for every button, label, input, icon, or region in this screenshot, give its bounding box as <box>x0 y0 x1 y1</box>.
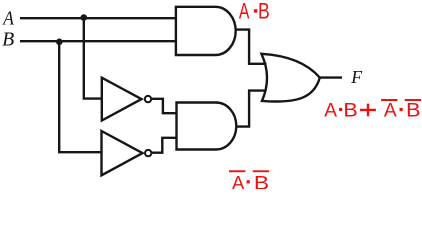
and-gate U4 bottom <box>177 103 237 150</box>
svg-text:A: A <box>1 8 13 29</box>
node junction on A <box>81 14 88 21</box>
svg-text:A: A <box>239 0 250 24</box>
wire A branch to NOT1 <box>84 18 103 98</box>
svg-text:B: B <box>254 172 269 189</box>
plus sign drawn <box>360 104 376 117</box>
svg-text:B: B <box>2 30 14 51</box>
inverter U2 triangle <box>102 78 142 121</box>
svg-text:A: A <box>232 172 245 189</box>
svg-text:B: B <box>343 100 357 122</box>
svg-text:A: A <box>324 100 337 122</box>
or-gate U5 <box>261 54 319 102</box>
inverter U2 bubble <box>145 96 151 102</box>
and-gate U1 top <box>176 7 236 55</box>
wire AND2 output to OR lower input <box>236 91 266 127</box>
inverter U3 bubble <box>145 150 151 156</box>
svg-text:B: B <box>258 0 270 24</box>
red label A·B for AND1 output <box>239 0 270 24</box>
wire NOT2 output to AND2 lower input <box>152 138 177 153</box>
svg-text:F: F <box>350 67 363 87</box>
inverter U3 triangle <box>102 131 143 175</box>
wire AND1 output to OR upper input <box>236 30 267 64</box>
wire OR output to F <box>320 76 342 78</box>
wire A horizontal <box>20 17 177 19</box>
wire B horizontal <box>20 40 177 42</box>
wire B branch to NOT2 <box>59 41 102 152</box>
svg-text:B: B <box>406 100 421 122</box>
node junction on B <box>56 39 63 46</box>
wire NOT1 output to AND2 upper input <box>151 99 177 113</box>
svg-text:A: A <box>384 100 397 122</box>
red label Abar·Bbar for AND2 output <box>229 170 269 194</box>
red label A·B+Abar·Bbar for output F <box>324 99 421 122</box>
